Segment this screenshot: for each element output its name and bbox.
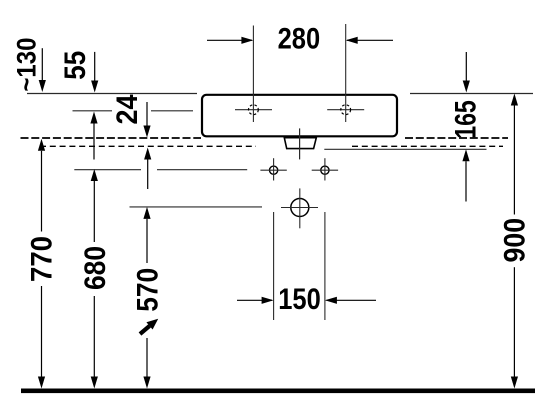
- tap hole left: dashed circle: [249, 105, 259, 115]
- dimension 24: down arrow: [146, 102, 148, 126]
- dimension 55: down arrow to rim: [94, 52, 96, 81]
- svg-text:570: 570: [132, 268, 165, 312]
- siphon circle: [291, 199, 309, 217]
- fixing hole right: circle: [321, 166, 329, 174]
- dimension 165: down arrow to rim: [465, 52, 467, 81]
- dimension 680: lower shaft and floor arrow: [93, 296, 95, 377]
- dimension 150: left arrow: [237, 299, 272, 301]
- drain level line (570): [130, 206, 263, 208]
- svg-text:680: 680: [79, 246, 112, 290]
- siphon vertical centerline: [299, 188, 301, 228]
- dimension 900: up arrow to rim: [511, 94, 518, 106]
- fixing hole left: vertical centerline: [273, 158, 275, 180]
- svg-text:55: 55: [59, 51, 92, 80]
- adjustable height arrow symbol: [140, 319, 158, 334]
- svg-text:900: 900: [499, 218, 532, 263]
- floor line: [21, 389, 535, 394]
- dimension ~130: down arrow to rim: [41, 48, 43, 80]
- dimension 770: up arrow to D1: [38, 139, 45, 151]
- dimension 55: up arrow to tap level: [93, 124, 95, 160]
- dimension 150: left extension line: [273, 212, 275, 320]
- dimension 150: right extension line: [324, 212, 326, 320]
- svg-text:165: 165: [450, 100, 483, 139]
- dimension 24: up arrow: [147, 160, 149, 190]
- svg-text:280: 280: [278, 23, 321, 56]
- rim line right segment (900 level): [410, 93, 533, 95]
- dimension 770: lower shaft and floor arrow: [41, 286, 43, 377]
- dimension 280: right arrow: [347, 39, 393, 41]
- fixing hole right: horizontal centerline: [312, 169, 338, 171]
- dashed line D1 (770 level) left segment: [21, 137, 202, 139]
- dimension 570: up arrow to drain level: [143, 207, 150, 219]
- tap hole right: dashed circle: [341, 105, 351, 115]
- dimension 900: lower shaft and floor arrow: [513, 267, 515, 377]
- dimension 680: up arrow to hole level: [91, 169, 98, 181]
- drain centerline: [299, 128, 301, 159]
- dimension 280: left arrow: [207, 39, 252, 41]
- tap hole left: horizontal centerline: [235, 109, 272, 111]
- hole level tick line segment b: [157, 169, 247, 171]
- fixing hole left: circle: [270, 166, 278, 174]
- dimension 570: lower shaft and floor arrow: [146, 338, 148, 377]
- fixing hole right: vertical centerline: [324, 158, 326, 180]
- dashed line D2 (165 level) right segment: [352, 145, 503, 147]
- drain trapezoid: [284, 138, 316, 149]
- washbasin outline: [202, 95, 397, 137]
- tap hole right: horizontal centerline: [327, 109, 364, 111]
- solid underside line S1 right: [324, 148, 486, 150]
- dimension 150: right arrow: [327, 299, 377, 301]
- tap hole left: vertical centerline / 280 extension line: [252, 26, 254, 123]
- fixing hole left: horizontal centerline: [260, 169, 286, 171]
- svg-text:770: 770: [26, 236, 59, 282]
- hole level tick line segment a: [74, 169, 141, 171]
- svg-text:24: 24: [111, 94, 144, 124]
- dimension 165: up arrow to underside line: [462, 149, 469, 161]
- svg-text:~130: ~130: [12, 38, 42, 92]
- dashed line D2 (165 level) left segment: [40, 145, 256, 147]
- tap hole right: vertical centerline / 280 extension line: [345, 24, 347, 122]
- svg-text:150: 150: [278, 283, 321, 316]
- tap level tick line (right of 24 text): [151, 110, 193, 112]
- tap level tick line (left of 24 text): [73, 110, 113, 112]
- dashed line D1 (770 level) right segment: [405, 137, 508, 139]
- siphon horizontal centerline: [281, 207, 318, 209]
- rim line left segment (900 level): [27, 93, 197, 95]
